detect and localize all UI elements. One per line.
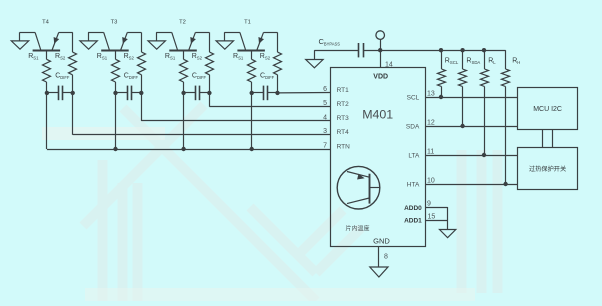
svg-text:RS2: RS2 <box>260 53 271 60</box>
wire T2 emitter to ground <box>156 32 172 34</box>
svg-text:RT2: RT2 <box>337 101 350 108</box>
svg-text:12: 12 <box>427 119 435 126</box>
transistor T1 <box>237 32 265 50</box>
overheat protection switch box <box>518 148 578 190</box>
wire T3 collector top <box>127 32 141 34</box>
wire ADD0 strap <box>425 207 447 209</box>
ground T2 <box>148 41 165 49</box>
resistor RS1 (T1) <box>248 59 256 82</box>
svg-text:RTN: RTN <box>337 143 351 150</box>
capacitor CDIFF (T1) <box>252 86 278 101</box>
svg-text:VDD: VDD <box>373 73 388 80</box>
wire T2 collector top <box>195 32 209 34</box>
wire ADD1 strap <box>425 220 447 222</box>
wire HTA (pin 10 to switch) <box>425 184 517 186</box>
svg-text:RH: RH <box>512 58 520 65</box>
transistor T4 <box>33 32 61 50</box>
svg-text:RS2: RS2 <box>55 53 66 60</box>
svg-text:SCL: SCL <box>407 94 420 101</box>
node RSCL bottom <box>439 95 443 99</box>
svg-text:GND: GND <box>373 237 390 246</box>
capacitor CDIFF (T4) <box>47 86 73 101</box>
svg-text:11: 11 <box>427 148 434 155</box>
svg-text:RS1: RS1 <box>165 53 176 60</box>
resistor RS2 (T3) <box>138 52 146 75</box>
svg-text:CBYPASS: CBYPASS <box>319 37 341 46</box>
ground GND pin <box>370 267 388 277</box>
svg-text:RL: RL <box>488 58 496 65</box>
wire SDA (pin 12 to MCU) <box>425 126 517 128</box>
svg-text:ADD0: ADD0 <box>404 205 422 212</box>
svg-text:RS2: RS2 <box>124 53 135 60</box>
node T3 left <box>113 91 117 95</box>
wire RTN bus (pin 7) <box>46 93 48 149</box>
svg-text:9: 9 <box>427 200 431 207</box>
wire MCU to switch link A <box>542 129 544 148</box>
terminal VDD supply <box>380 39 382 50</box>
resistor RH <box>505 50 507 69</box>
op-amp U1 M401 chip body <box>331 68 426 247</box>
junction RTN-T1 <box>251 93 253 149</box>
svg-text:7: 7 <box>323 142 327 149</box>
node T2 left <box>181 91 185 95</box>
node rail-RSDA <box>460 48 464 52</box>
junction RTN-T3 <box>115 93 117 149</box>
node T4 left <box>45 91 49 95</box>
ground T3 <box>80 41 97 49</box>
node T4 right <box>71 91 75 95</box>
svg-text:T1: T1 <box>244 20 251 26</box>
node T3 right <box>139 91 143 95</box>
svg-text:14: 14 <box>385 62 393 69</box>
svg-text:RS1: RS1 <box>97 53 108 60</box>
wire RT3 (T3 to pin 4) <box>141 93 143 121</box>
svg-text:RT1: RT1 <box>337 87 350 94</box>
resistor RS1 (T2) <box>180 59 188 82</box>
svg-text:8: 8 <box>384 254 388 261</box>
resistor RL <box>484 50 486 69</box>
watermark background pattern <box>83 105 498 301</box>
svg-text:RSDA: RSDA <box>466 58 480 65</box>
wire LTA (pin 11 to switch) <box>425 155 517 157</box>
resistor RS2 (T2) <box>206 52 214 75</box>
node RSDA bottom <box>460 124 464 128</box>
svg-text:ADD1: ADD1 <box>404 217 422 224</box>
transistor T3 <box>101 32 129 50</box>
capacitor CBYPASS <box>314 43 380 57</box>
svg-text:6: 6 <box>323 86 327 93</box>
svg-text:RSCL: RSCL <box>445 58 459 65</box>
svg-text:CDIFF: CDIFF <box>124 72 139 79</box>
wire VDD rail <box>380 50 505 52</box>
wire GND pin 8 <box>378 247 380 267</box>
resistor RSCL <box>441 50 443 69</box>
node T1 right <box>275 91 279 95</box>
svg-text:T3: T3 <box>111 20 118 26</box>
junction RTN-T2 <box>183 93 185 149</box>
ground T1 <box>216 41 233 49</box>
ground ADD pins <box>440 230 456 238</box>
svg-text:13: 13 <box>427 90 435 97</box>
svg-text:RT3: RT3 <box>337 115 350 122</box>
svg-text:LTA: LTA <box>408 152 420 159</box>
transistor T2 <box>169 32 197 50</box>
node T1 left <box>250 91 254 95</box>
svg-text:T4: T4 <box>42 20 50 26</box>
capacitor CDIFF (T3) <box>116 86 142 101</box>
resistor RS2 (T4) <box>69 52 77 75</box>
svg-text:片内温度: 片内温度 <box>345 224 369 232</box>
wire SCL (pin 13 to MCU) <box>425 97 517 99</box>
svg-text:RS1: RS1 <box>233 53 244 60</box>
MCU I2C box <box>518 88 578 130</box>
wire RT1 (T1 to pin 6) <box>278 92 331 94</box>
wire T1 emitter to ground <box>224 32 240 34</box>
svg-text:10: 10 <box>427 177 435 184</box>
ground CBYPASS <box>314 50 316 59</box>
node T2 right <box>207 91 211 95</box>
svg-text:HTA: HTA <box>407 181 420 188</box>
resistor RSDA <box>462 50 464 69</box>
transistor Q-internal (on-chip sensor) <box>337 166 380 209</box>
svg-text:RS1: RS1 <box>28 53 39 60</box>
capacitor CDIFF (T2) <box>184 86 210 101</box>
wire T1 collector top <box>264 32 278 34</box>
ground T4 <box>11 41 28 49</box>
wire RT4 (T4 to pin 3) <box>72 93 74 135</box>
svg-text:15: 15 <box>428 214 436 221</box>
svg-text:CDIFF: CDIFF <box>192 72 207 79</box>
svg-text:5: 5 <box>323 100 327 107</box>
resistor RS1 (T4) <box>43 59 51 82</box>
resistor RS1 (T3) <box>112 59 120 82</box>
svg-text:4: 4 <box>323 114 327 121</box>
svg-text:RS2: RS2 <box>192 53 203 60</box>
svg-text:3: 3 <box>323 128 327 135</box>
svg-text:MCU I2C: MCU I2C <box>533 106 562 113</box>
svg-text:M401: M401 <box>362 108 393 122</box>
node RH bottom <box>503 182 507 186</box>
svg-text:过热保护开关: 过热保护开关 <box>529 165 566 173</box>
wire T4 emitter to ground <box>20 32 36 34</box>
node rail-RSCL <box>439 48 443 52</box>
wire T3 emitter to ground <box>88 32 104 34</box>
svg-text:SDA: SDA <box>406 123 420 130</box>
svg-text:RT4: RT4 <box>337 129 350 136</box>
wire MCU to switch link B <box>552 129 554 148</box>
svg-text:CDIFF: CDIFF <box>260 72 275 79</box>
wire T4 collector top <box>59 32 73 34</box>
resistor RS2 (T1) <box>274 52 282 75</box>
wire RT2 (T2 to pin 5) <box>209 93 211 107</box>
svg-text:T2: T2 <box>179 20 186 26</box>
node rail-RL <box>482 48 486 52</box>
node VDD junction <box>378 48 382 52</box>
wire VDD pin 14 <box>380 50 382 67</box>
svg-text:CDIFF: CDIFF <box>55 72 70 79</box>
node RL bottom <box>482 153 486 157</box>
